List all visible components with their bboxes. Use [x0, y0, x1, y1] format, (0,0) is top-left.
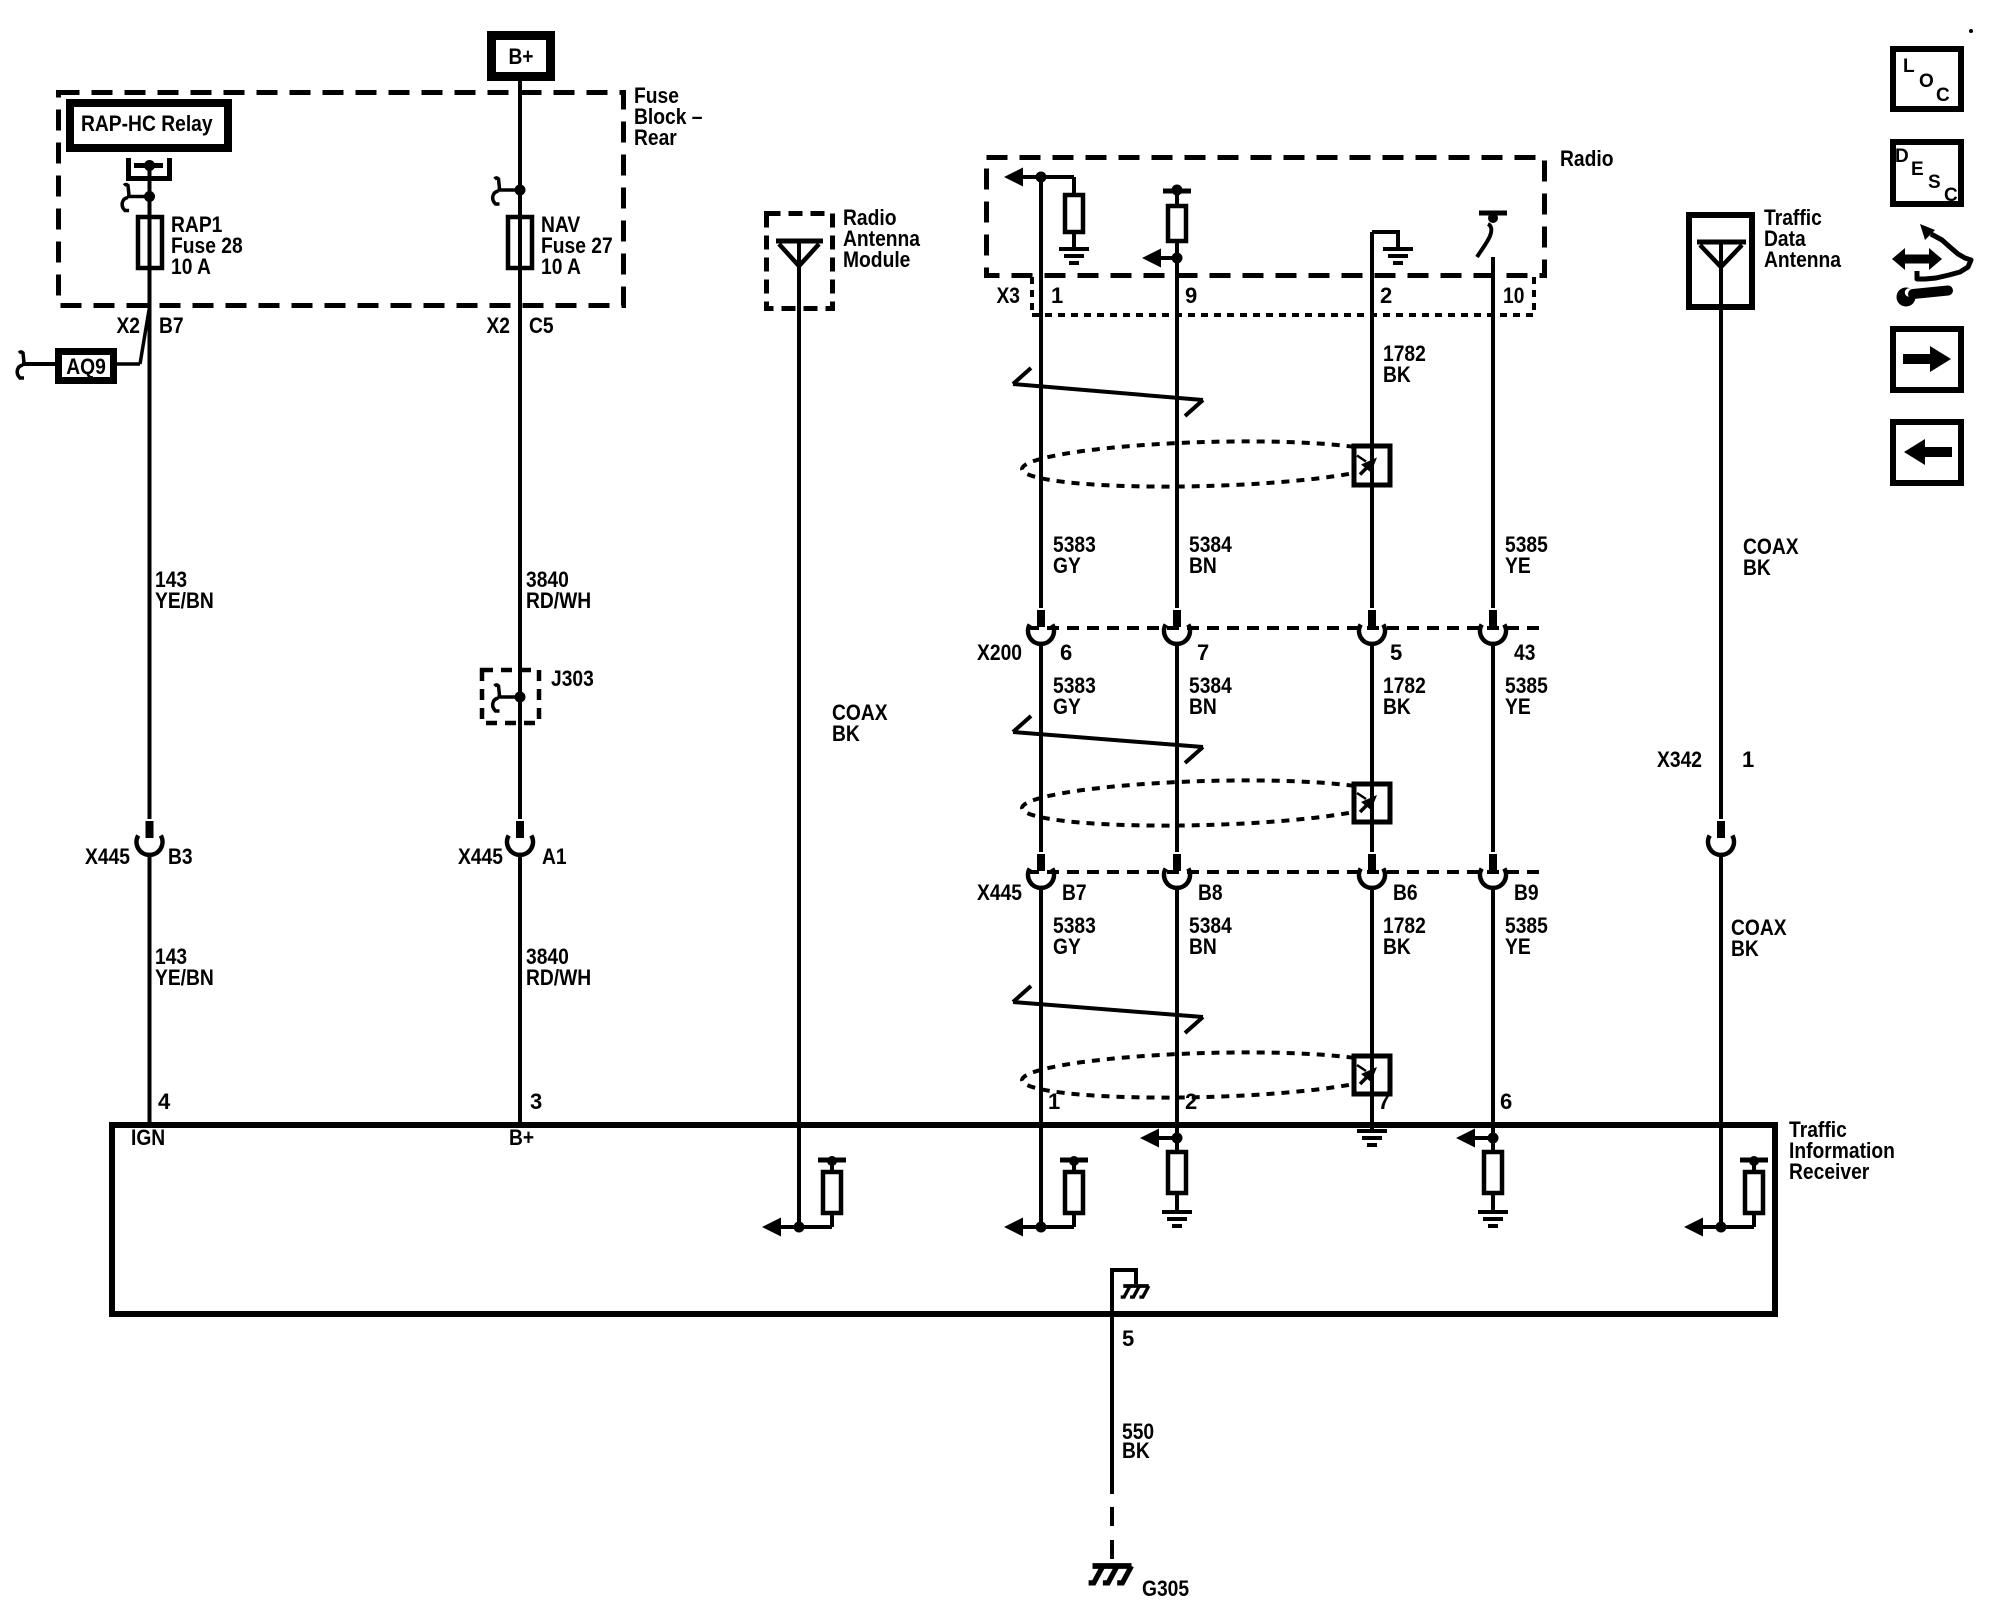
- svg-text:7: 7: [1197, 640, 1209, 665]
- svg-text:10: 10: [1503, 283, 1524, 308]
- fuse block label: [634, 83, 703, 150]
- radio internal pin1 arrow resistor ground: [1004, 168, 1089, 264]
- svg-text:X445: X445: [977, 880, 1022, 905]
- svg-text:5: 5: [1390, 640, 1402, 665]
- connector X445 pin B6: [1359, 854, 1385, 888]
- svg-text:L: L: [1903, 56, 1915, 77]
- antenna symbol radio: [776, 241, 823, 266]
- connector X445 pin B8: [1164, 854, 1190, 888]
- connector X3 labels: [997, 283, 1525, 308]
- clip terminal AQ9: [17, 352, 55, 378]
- connector X445 pin A1: [507, 821, 533, 855]
- wire label 143 YE/BN lower: [155, 944, 214, 990]
- svg-text:B8: B8: [1198, 880, 1223, 905]
- svg-text:10 A: 10 A: [171, 254, 211, 279]
- receiver B+ label: [509, 1125, 534, 1150]
- svg-text:X2: X2: [487, 313, 511, 338]
- node X2 C5 label: [487, 313, 554, 338]
- traffic data antenna box: [1689, 215, 1752, 307]
- svg-text:YE/BN: YE/BN: [155, 588, 214, 613]
- svg-text:BN: BN: [1189, 553, 1217, 578]
- connector X200 pin43: [1480, 610, 1506, 644]
- wire B+ to fuse 27: [518, 81, 522, 217]
- svg-text:BK: BK: [1383, 362, 1411, 387]
- wire label 3840 RD/WH lower: [526, 944, 591, 990]
- svg-text:6: 6: [1500, 1089, 1512, 1114]
- wire label 1782 BK row2: [1383, 673, 1426, 719]
- connector X445 B3 label: [85, 844, 193, 869]
- ground G305 label: [1142, 1576, 1189, 1600]
- wire X445 A1 to receiver: [518, 855, 522, 1122]
- icon forward arrow box: [1893, 329, 1961, 390]
- wire 1782 BK radio to X200: [1370, 232, 1374, 608]
- wire label 143 YE/BN upper: [155, 567, 214, 613]
- receiver pin5 label: [1122, 1326, 1134, 1351]
- svg-text:BK: BK: [1383, 934, 1411, 959]
- node X2 B7 label: [117, 313, 184, 338]
- stray dot: [1969, 29, 1973, 33]
- radio internal pin2 ground: [1372, 230, 1413, 263]
- wire label COAX BK left: [832, 700, 888, 746]
- wire label 5385 YE row1: [1505, 532, 1548, 578]
- wire label 5383 GY row1: [1053, 532, 1096, 578]
- svg-text:BK: BK: [1122, 1438, 1150, 1463]
- svg-text:BK: BK: [832, 721, 860, 746]
- wire 5383 GY X445 to receiver: [1039, 888, 1043, 1122]
- ground G305: [1089, 1566, 1132, 1583]
- connector X200 pin5: [1359, 610, 1385, 644]
- connector X342 label: [1657, 747, 1754, 772]
- svg-text:BK: BK: [1383, 694, 1411, 719]
- svg-text:Rear: Rear: [634, 125, 677, 150]
- svg-text:C: C: [1944, 185, 1958, 206]
- relay RAP-HC box: [70, 103, 228, 148]
- clip terminal fuse 27: [493, 178, 526, 204]
- svg-text:GY: GY: [1053, 934, 1081, 959]
- svg-text:RD/WH: RD/WH: [526, 965, 591, 990]
- wire relay to fuse 28: [148, 166, 152, 218]
- svg-text:X200: X200: [977, 640, 1022, 665]
- wire label 5383 GY row2: [1053, 673, 1096, 719]
- svg-text:C: C: [1936, 85, 1950, 106]
- svg-text:B6: B6: [1393, 880, 1418, 905]
- receiver internal pin1: [1004, 1122, 1088, 1237]
- twisted pair symbol row3: [1013, 986, 1203, 1033]
- shield symbol row1: [1021, 437, 1390, 491]
- clip terminal fuse 28: [122, 185, 155, 211]
- svg-text:GY: GY: [1053, 553, 1081, 578]
- svg-text:3: 3: [530, 1089, 542, 1114]
- svg-text:YE: YE: [1505, 694, 1531, 719]
- wire label 3840 RD/WH upper: [526, 567, 591, 613]
- svg-text:G305: G305: [1142, 1576, 1189, 1600]
- receiver internal pin7: [1357, 1122, 1387, 1145]
- svg-text:1: 1: [1048, 1089, 1060, 1114]
- svg-text:B9: B9: [1514, 880, 1539, 905]
- wire X342 to receiver: [1719, 855, 1723, 1122]
- wire 5384 BN radio to X200: [1175, 258, 1179, 608]
- wire inside fuse 28: [148, 217, 152, 268]
- svg-text:YE: YE: [1505, 934, 1531, 959]
- wire 5384 BN X445 to receiver: [1175, 888, 1179, 1122]
- wire 1782 BK X200 to X445: [1370, 644, 1374, 852]
- wire label 5383 GY row3: [1053, 913, 1096, 959]
- svg-text:BK: BK: [1731, 936, 1759, 961]
- B+ power box: [492, 36, 551, 77]
- fuse block rear dashed box: [59, 93, 624, 306]
- connector X445 pin B9: [1480, 854, 1506, 888]
- svg-text:A1: A1: [542, 844, 567, 869]
- receiver internal pin2: [1140, 1122, 1192, 1226]
- receiver pin labels row: [1048, 1089, 1512, 1114]
- wire AQ9 to node B7: [117, 310, 149, 364]
- fuse 28 label: [171, 212, 243, 279]
- receiver pin 4 label: [158, 1089, 171, 1114]
- connector X445 pin B7: [1028, 854, 1054, 888]
- svg-text:Antenna: Antenna: [1764, 247, 1842, 272]
- svg-text:10 A: 10 A: [541, 254, 581, 279]
- svg-text:6: 6: [1060, 640, 1072, 665]
- svg-text:9: 9: [1185, 283, 1197, 308]
- coax wire antenna to X342: [1719, 242, 1723, 819]
- connector X445 row line: [1027, 870, 1540, 874]
- svg-text:1: 1: [1742, 747, 1754, 772]
- svg-text:X2: X2: [117, 313, 141, 338]
- connector X200 row line: [1027, 626, 1540, 630]
- svg-text:X342: X342: [1657, 747, 1702, 772]
- radio dashed box: [987, 158, 1545, 276]
- svg-text:5: 5: [1122, 1326, 1134, 1351]
- receiver internal coax right: [1684, 1122, 1768, 1237]
- icon LOC box: [1893, 49, 1961, 109]
- connector X445 pin B3: [137, 821, 163, 855]
- svg-text:1: 1: [1051, 283, 1063, 308]
- svg-text:X445: X445: [458, 844, 503, 869]
- svg-text:YE: YE: [1505, 553, 1531, 578]
- receiver pin 3 label: [530, 1089, 542, 1114]
- fuse NAV Fuse 27: [508, 217, 532, 268]
- splice J303 dashed box: [482, 670, 539, 723]
- svg-text:S: S: [1928, 172, 1941, 193]
- wire fuse 27 to X445: [518, 268, 522, 819]
- wire 5385 YE radio to X200: [1491, 257, 1495, 608]
- coax wire antenna module to receiver: [797, 241, 801, 1122]
- wire label 5385 YE row3: [1505, 913, 1548, 959]
- svg-text:4: 4: [158, 1089, 171, 1114]
- svg-text:BN: BN: [1189, 694, 1217, 719]
- svg-text:2: 2: [1185, 1089, 1197, 1114]
- wire 5383 GY X200 to X445: [1039, 644, 1043, 852]
- wire 5385 YE X445 to receiver: [1491, 888, 1495, 1122]
- svg-text:RD/WH: RD/WH: [526, 588, 591, 613]
- wire 5384 BN X200 to X445: [1175, 644, 1179, 852]
- wire X445 B3 to receiver: [148, 855, 152, 1122]
- shield symbol row3: [1021, 1048, 1390, 1102]
- fuse 27 label: [541, 212, 613, 279]
- svg-text:C5: C5: [529, 313, 554, 338]
- relay contact symbol: [129, 158, 170, 179]
- svg-text:IGN: IGN: [131, 1125, 165, 1150]
- antenna symbol traffic: [1697, 242, 1746, 267]
- connector X342 pin 1: [1708, 821, 1734, 855]
- receiver internal pin6: [1456, 1122, 1508, 1226]
- svg-text:BK: BK: [1743, 555, 1771, 580]
- svg-text:7: 7: [1378, 1089, 1390, 1114]
- svg-text:D: D: [1895, 146, 1909, 167]
- radio antenna module label: [843, 205, 921, 272]
- svg-text:Radio: Radio: [1560, 146, 1614, 171]
- svg-text:AQ9: AQ9: [66, 354, 106, 379]
- wire 550 BK: [1110, 1317, 1114, 1559]
- svg-text:43: 43: [1514, 640, 1535, 665]
- svg-text:2: 2: [1380, 283, 1392, 308]
- radio label: [1560, 146, 1614, 171]
- connector X200 pin7: [1164, 610, 1190, 644]
- svg-text:B+: B+: [509, 1125, 534, 1150]
- svg-text:YE/BN: YE/BN: [155, 965, 214, 990]
- splice J303 clip: [493, 685, 526, 711]
- shield symbol row2: [1021, 776, 1390, 830]
- svg-text:Receiver: Receiver: [1789, 1159, 1870, 1184]
- receiver label: [1789, 1117, 1895, 1184]
- icon back arrow box: [1893, 422, 1961, 483]
- svg-text:X3: X3: [997, 283, 1021, 308]
- svg-text:J303: J303: [551, 666, 594, 691]
- radio internal pin10 switch: [1477, 213, 1507, 257]
- connector X445 A1 label: [458, 844, 567, 869]
- wire 5383 GY radio to X200: [1039, 177, 1043, 608]
- connector X200 labels: [977, 640, 1535, 665]
- receiver internal ground bracket pin5: [1112, 1270, 1149, 1317]
- wire 1782 BK X445 to receiver: [1370, 888, 1374, 1122]
- connector X445 mid labels: [977, 880, 1539, 905]
- radio antenna module dashed box: [767, 214, 833, 309]
- wire label 5385 YE row2: [1505, 673, 1548, 719]
- icon DESC box: [1893, 142, 1961, 206]
- traffic information receiver box: [112, 1125, 1775, 1314]
- svg-text:Module: Module: [843, 247, 910, 272]
- wire label 1782 BK row1: [1383, 341, 1426, 387]
- fuse RAP1 Fuse 28: [138, 217, 162, 268]
- receiver IGN label: [131, 1125, 165, 1150]
- wire inside fuse 27: [518, 217, 522, 268]
- wire label 1782 BK row3: [1383, 913, 1426, 959]
- wire 5385 YE X200 to X445: [1491, 644, 1495, 852]
- icon data link connector: [1892, 224, 1971, 307]
- svg-text:E: E: [1911, 159, 1924, 180]
- svg-text:GY: GY: [1053, 694, 1081, 719]
- traffic data antenna label: [1764, 205, 1842, 272]
- wire fuse 28 to X445: [148, 268, 152, 819]
- svg-text:B3: B3: [168, 844, 193, 869]
- wire label 5384 BN row1: [1189, 532, 1232, 578]
- wire label COAX BK right upper: [1743, 534, 1799, 580]
- receiver internal coax left: [762, 1122, 846, 1237]
- component AQ9 box: [59, 352, 114, 381]
- svg-text:O: O: [1919, 71, 1934, 92]
- connector X3 strip: [1032, 277, 1534, 315]
- wire label 550 BK: [1122, 1419, 1154, 1463]
- twisted pair symbol row2: [1013, 716, 1203, 763]
- svg-text:RAP-HC Relay: RAP-HC Relay: [81, 111, 213, 136]
- connector X200 pin6: [1028, 610, 1054, 644]
- wire label COAX BK right lower: [1731, 915, 1787, 961]
- svg-text:B7: B7: [159, 313, 184, 338]
- wire label 5384 BN row2: [1189, 673, 1232, 719]
- svg-text:B7: B7: [1062, 880, 1087, 905]
- twisted pair symbol row1: [1013, 368, 1203, 416]
- splice J303 label: [551, 666, 594, 691]
- wire label 5384 BN row3: [1189, 913, 1232, 959]
- radio internal pin9 resistor arrow: [1142, 185, 1191, 268]
- svg-text:B+: B+: [508, 44, 533, 69]
- svg-text:X445: X445: [85, 844, 130, 869]
- svg-text:BN: BN: [1189, 934, 1217, 959]
